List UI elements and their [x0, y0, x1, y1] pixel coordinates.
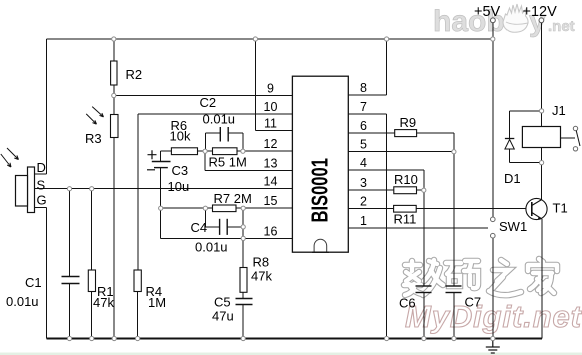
wire: pin 5 line	[348, 151, 454, 153]
capacitor C5 electrolytic	[212, 295, 253, 324]
wire: pin 4 drop to R10 node	[423, 170, 425, 190]
svg-text:+5V: +5V	[474, 4, 501, 20]
svg-text:47k: 47k	[93, 295, 114, 310]
wire: T1 collector lead	[541, 163, 543, 200]
svg-text:.net: .net	[548, 18, 575, 35]
junction nodes	[67, 37, 543, 341]
wire: pin10 vertical down to R4	[137, 114, 139, 270]
svg-text:C3: C3	[172, 163, 189, 178]
svg-text:6: 6	[360, 119, 367, 133]
pin numbers left 9-16	[264, 82, 278, 239]
wire: sensor D lead	[35, 173, 47, 175]
wire: pin 8 line	[348, 94, 386, 96]
svg-text:J1: J1	[552, 103, 566, 118]
wire: C6 bottom lead	[423, 293, 425, 339]
wire: C2 left lead	[205, 132, 220, 134]
svg-text:S: S	[37, 178, 46, 193]
wire: C4 left lead	[205, 226, 219, 228]
pin numbers right 8-1	[360, 81, 367, 228]
capacitor C1	[6, 275, 80, 309]
resistor R10	[394, 172, 418, 194]
svg-text:C1: C1	[25, 275, 42, 290]
wire: pin 7 ground drop	[386, 114, 388, 339]
transistor T1 NPN	[526, 198, 568, 219]
wire: +12V drop to relay	[541, 23, 543, 127]
svg-text:C5: C5	[214, 295, 231, 310]
wire: pin 2 line to R11	[348, 207, 393, 209]
svg-text:R8: R8	[253, 255, 270, 270]
wire: D1 cathode riser	[509, 111, 511, 139]
svg-text:8: 8	[360, 81, 367, 95]
svg-text:15: 15	[264, 194, 278, 208]
wire: R3 bottom lead down to ground rail	[113, 138, 115, 339]
resistor R6	[170, 118, 198, 155]
wire: R4 bottom lead	[137, 292, 139, 339]
capacitor C6	[399, 286, 432, 311]
wire: C7 bottom lead	[453, 293, 455, 339]
svg-text:R3: R3	[85, 131, 102, 146]
wire: S line sensor to pin 14	[35, 188, 293, 190]
watermark haoboy logo top right	[433, 4, 575, 38]
PIR sensor D S G	[1, 148, 47, 213]
resistor R3 photoresistor	[85, 107, 118, 146]
wire: relay coil bottom lead	[541, 148, 543, 163]
resistor R2	[111, 61, 143, 85]
svg-text:9: 9	[267, 82, 274, 96]
svg-text:14: 14	[264, 175, 278, 189]
svg-text:10: 10	[264, 100, 278, 114]
resistor R9	[395, 115, 417, 137]
resistor R11	[394, 205, 417, 226]
svg-text:7: 7	[360, 100, 367, 114]
svg-text:C2: C2	[200, 95, 217, 110]
IC U1 BIS0001 body	[292, 76, 348, 252]
svg-text:1: 1	[360, 214, 367, 228]
resistor R4	[134, 270, 166, 310]
svg-text:0.01u: 0.01u	[195, 240, 228, 255]
wire: R1 bottom lead	[91, 292, 93, 339]
wire: pin 6 line to R9	[348, 132, 394, 134]
capacitor C3 electrolytic	[147, 150, 189, 194]
svg-text:3: 3	[360, 176, 367, 190]
wire: R11 right lead to T1 base	[416, 207, 526, 209]
wire: pin 4 line	[348, 169, 424, 171]
wire: left vertical G to ground rail	[46, 208, 48, 339]
wire: C1 bottom lead	[69, 284, 71, 339]
svg-text:47u: 47u	[212, 309, 234, 324]
svg-text:0.01u: 0.01u	[203, 112, 236, 127]
wire: pin 10 line	[138, 113, 292, 115]
wire: R10 right lead to node	[417, 189, 424, 191]
wire: R9 right lead	[417, 132, 454, 134]
svg-text:T1: T1	[553, 201, 568, 216]
bottom page edge band	[0, 353, 582, 355]
svg-text:C7: C7	[465, 295, 482, 310]
wire: pin 7 line	[348, 113, 386, 115]
resistor R7	[213, 191, 252, 212]
wire: C4 left riser	[204, 208, 206, 227]
wire: rail drop to pin 11	[254, 39, 256, 131]
wire: R1 top lead from S line	[91, 189, 93, 270]
svg-text:16: 16	[264, 224, 278, 238]
wire: relay contact lead	[561, 137, 576, 139]
svg-text:R7 2M: R7 2M	[214, 191, 252, 206]
watermark shuma zhijia bottom right	[404, 259, 557, 295]
wire: R8 to C5	[242, 292, 244, 298]
wire: C7 branch vertical	[453, 152, 455, 286]
wire: pin 16 line	[161, 237, 293, 239]
wire: D1 bottom lead	[510, 162, 542, 164]
wire: pin 3 line to R10	[348, 189, 394, 191]
svg-text:+12V: +12V	[523, 4, 558, 20]
ground symbol	[486, 339, 500, 354]
svg-text:R5 1M: R5 1M	[209, 155, 247, 170]
wire: +5V top rail	[47, 38, 494, 40]
wire: T1 emitter lead to rail corner	[541, 219, 543, 339]
terminal +12V	[523, 4, 558, 23]
capacitor C4	[191, 219, 228, 255]
svg-text:2: 2	[360, 194, 367, 208]
wire: pin 12 line	[243, 150, 293, 152]
wire: R2 bottom lead to pin9 node	[113, 85, 115, 96]
diode D1	[504, 139, 521, 187]
wire: R8 branch vertical from R7 node to R8	[242, 208, 244, 267]
resistor R8	[240, 255, 272, 293]
svg-text:47k: 47k	[251, 269, 272, 284]
svg-text:G: G	[37, 193, 47, 208]
svg-text:R11: R11	[394, 212, 417, 227]
wire: R6 left lead	[161, 150, 172, 152]
capacitor C7	[446, 286, 482, 310]
wire: C5 bottom lead	[242, 305, 244, 339]
wire: C2 right lead	[228, 132, 243, 134]
svg-text:1M: 1M	[148, 295, 166, 310]
resistor R5	[209, 148, 247, 170]
wire: C3 top riser	[160, 151, 162, 161]
svg-text:4: 4	[360, 156, 367, 170]
switch SW1	[491, 217, 528, 238]
wire: D1 top lead	[510, 110, 542, 112]
wire: C4 right lead	[227, 226, 243, 228]
svg-text:C6: C6	[399, 296, 416, 311]
resistor R1	[88, 270, 114, 310]
wire: pin13 riser to R5 node	[204, 151, 206, 170]
wire: C6 branch vertical	[423, 190, 425, 286]
svg-text:R9: R9	[400, 115, 417, 130]
svg-text:11: 11	[264, 117, 277, 131]
svg-text:C4: C4	[191, 220, 208, 235]
wire: R5 right lead to pin12	[237, 150, 243, 152]
wire: pin 1 line to SW1	[348, 227, 488, 229]
svg-text:5: 5	[360, 138, 367, 152]
wire: pin 9 line	[114, 95, 293, 97]
wire: +5V drop to SW1	[492, 23, 494, 218]
svg-text:12: 12	[264, 137, 278, 151]
svg-text:10u: 10u	[168, 179, 190, 194]
wire: left vertical from rail to sensor D	[46, 39, 48, 174]
wire: pin 13 line	[205, 169, 292, 171]
relay J1 coil	[522, 103, 565, 148]
svg-text:R2: R2	[126, 67, 143, 82]
wire: R2 top lead	[113, 39, 115, 61]
svg-text:D1: D1	[504, 171, 521, 186]
wire: pin 15 R7 row	[161, 207, 213, 209]
terminal +5V	[474, 4, 501, 23]
wire: pin 8 riser to +5V rail	[386, 39, 388, 95]
wire: C2 right riser	[242, 133, 244, 151]
svg-text:0.01u: 0.01u	[6, 294, 39, 309]
wire: R7 right lead	[236, 207, 292, 209]
svg-text:SW1: SW1	[499, 219, 527, 234]
wire: D1 anode drop	[509, 149, 511, 163]
svg-text:13: 13	[264, 156, 278, 170]
wire: R6-R5 link	[198, 150, 213, 152]
wire: C1 top lead from S line	[69, 189, 71, 277]
wire: C3 bottom lead down through S line to R7 and pin16	[160, 168, 162, 239]
wire: pin 11 line	[255, 130, 292, 132]
svg-text:10k: 10k	[170, 129, 191, 144]
relay J1 contact	[573, 126, 580, 151]
svg-text:R10: R10	[394, 172, 418, 187]
wire: sensor G lead	[34, 207, 47, 209]
svg-text:BIS0001: BIS0001	[308, 158, 333, 222]
capacitor C2	[200, 95, 236, 142]
wire: SW1 bottom to ground rail	[492, 238, 494, 339]
wire: R9 drop to pin5 node	[453, 133, 455, 152]
wire: C2 left riser	[204, 133, 206, 151]
svg-text:MyDigit.net: MyDigit.net	[405, 299, 582, 334]
wire: ground bottom rail	[47, 338, 543, 340]
wire: R3 top lead	[113, 96, 115, 115]
svg-text:D: D	[37, 160, 46, 175]
